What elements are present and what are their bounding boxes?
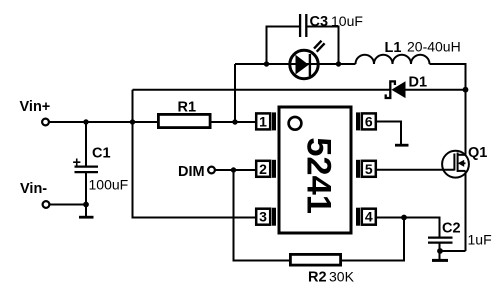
wire pin5 to Q1 gate [377, 169, 454, 171]
svg-text:D1: D1 [409, 75, 428, 91]
svg-text:+: + [73, 155, 81, 171]
pin 4 [356, 208, 376, 226]
transistor Q1 [442, 151, 469, 178]
wire C1 upper lead [85, 122, 87, 166]
wire pin4 to C2 [377, 218, 440, 237]
LED triangle [296, 55, 309, 75]
node junction C3 left [264, 61, 269, 66]
wire R2 right to pin4 node [342, 218, 404, 261]
capacitor C1 [75, 167, 99, 173]
svg-text:R2: R2 [308, 270, 327, 286]
node junction left vertical [130, 119, 135, 124]
LED D (circle) [290, 50, 318, 78]
svg-text:5241: 5241 [300, 137, 338, 214]
diode D1 triangle [391, 81, 405, 98]
svg-text:1uF: 1uF [468, 232, 492, 248]
IC pin1 indicator [289, 117, 302, 130]
wire Q1 source to C2 bottom [440, 250, 466, 252]
wire pin6 to ground [377, 122, 401, 145]
wire Q1 source down [465, 171, 467, 251]
svg-text:30K: 30K [329, 269, 355, 285]
svg-text:3: 3 [259, 209, 267, 225]
ground C2 [432, 259, 448, 262]
node junction C2 bottom [437, 248, 443, 254]
terminal Vin+ [42, 119, 49, 126]
node junction Vin- / C1 [83, 202, 89, 208]
pin 6 [356, 112, 376, 130]
resistor R1 [158, 114, 210, 127]
resistor R2 [290, 254, 340, 265]
wire DIM to pin2 [216, 169, 256, 171]
node junction pin4 / R2 / C2 [401, 215, 407, 221]
wire Vin- lead [50, 204, 86, 206]
wire Vin+ rail [50, 121, 158, 123]
svg-text:Vin-: Vin- [20, 181, 47, 197]
svg-text:DIM: DIM [178, 164, 205, 180]
node junction D1 / drain [463, 87, 469, 93]
svg-text:Q1: Q1 [468, 145, 487, 161]
pin 2 [256, 160, 276, 178]
node junction C3 right [336, 61, 341, 66]
wire D1 anode line [406, 89, 466, 91]
ground C1 [79, 216, 94, 219]
terminal DIM [208, 167, 215, 174]
svg-text:R1: R1 [178, 100, 197, 116]
svg-text:1: 1 [259, 113, 267, 129]
inductor L1 [356, 55, 430, 64]
wire LED rail [235, 63, 356, 65]
IC U1 body [279, 107, 351, 233]
svg-text:5: 5 [365, 161, 373, 177]
LED light rays [314, 41, 325, 52]
terminal Vin- [43, 201, 50, 208]
pin 1 [256, 112, 276, 130]
wire DIM branch down to R2 [234, 170, 290, 261]
diode D1 schottky bar [386, 81, 395, 98]
wire C2 bottom lead [439, 244, 441, 260]
svg-text:Vin+: Vin+ [20, 99, 51, 115]
LED cathode bar [309, 54, 311, 76]
capacitor C3 [300, 14, 306, 37]
node junction DIM [231, 167, 236, 172]
wire D1 cathode line [133, 89, 390, 91]
wire C3 left lead [267, 27, 300, 65]
node junction R1 / LED branch [232, 119, 237, 124]
svg-text:6: 6 [365, 113, 373, 129]
wire R1 to pin1 [212, 121, 256, 123]
svg-text:C2: C2 [442, 221, 461, 237]
capacitor C2 [428, 238, 453, 243]
svg-text:L1: L1 [385, 40, 402, 56]
ground pin6 [395, 144, 409, 147]
svg-text:20-40uH: 20-40uH [407, 39, 461, 55]
svg-text:2: 2 [259, 161, 267, 177]
wire riser to LED rail [234, 64, 236, 122]
wire L1 to drain corner [430, 64, 466, 155]
wire left vertical to D1 rail and pin3 [133, 90, 256, 218]
pin 3 [256, 208, 276, 226]
wire C3 right lead [307, 27, 339, 65]
node junction C1 top [83, 119, 88, 124]
pin 5 [356, 160, 376, 178]
svg-text:C1: C1 [92, 146, 111, 162]
svg-text:4: 4 [365, 209, 373, 225]
wire C1 lower lead [85, 173, 87, 216]
svg-text:100uF: 100uF [89, 177, 129, 193]
